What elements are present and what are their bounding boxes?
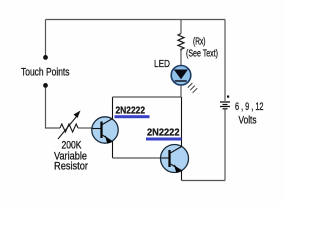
wire left column upper bbox=[45, 20, 47, 56]
transistor Q2 emitter bbox=[170, 164, 182, 181]
battery BT1 plates bbox=[220, 102, 230, 109]
label LED bbox=[154, 58, 170, 70]
label (See Text) bbox=[186, 49, 218, 60]
svg-text:2N2222: 2N2222 bbox=[116, 105, 146, 117]
label Variable bbox=[54, 151, 87, 163]
wire right column lower bbox=[224, 110, 226, 181]
LED D1 triangle bbox=[174, 70, 188, 80]
transistor Q1 body bbox=[92, 117, 118, 143]
wire R1 to Q1 base bbox=[78, 127, 92, 129]
LED D1 body bbox=[171, 66, 191, 86]
resistor R1 200K variable bbox=[60, 124, 78, 132]
svg-text:(Rx): (Rx) bbox=[193, 37, 206, 48]
svg-text:2N2222: 2N2222 bbox=[147, 127, 180, 139]
battery BT1 plus dot bbox=[227, 96, 229, 98]
transistor Q1 base lead bbox=[92, 128, 102, 130]
wire Rx branch top bbox=[180, 20, 182, 34]
label 6,9,12 bbox=[235, 101, 264, 113]
LED light rays bbox=[188, 83, 197, 93]
resistor R1 wiper arrow bbox=[58, 111, 81, 140]
label Resistor bbox=[54, 161, 88, 173]
transistor Q1 emitter bbox=[102, 135, 113, 159]
svg-text:Volts: Volts bbox=[239, 115, 257, 127]
node touch point lower bbox=[43, 83, 48, 88]
Q2 label underline bbox=[146, 138, 182, 141]
svg-text:6 , 9 , 12: 6 , 9 , 12 bbox=[235, 101, 264, 113]
label 2N2222 Q1 bbox=[116, 105, 146, 117]
transistor Q2 body bbox=[161, 145, 189, 173]
wire top rail bbox=[46, 19, 226, 21]
wire LED to collector bus bbox=[180, 85, 182, 97]
wire collector bus bbox=[113, 96, 182, 98]
transistor Q2 collector bbox=[170, 97, 182, 154]
Q1 label underline bbox=[115, 115, 150, 118]
wire left column lower to base rail bbox=[46, 88, 61, 129]
svg-text:Touch Points: Touch Points bbox=[21, 67, 70, 79]
transistor Q2 base bar bbox=[168, 150, 170, 167]
label 2N2222 Q2 bbox=[147, 127, 180, 139]
svg-text:(See Text): (See Text) bbox=[186, 49, 218, 60]
LED D1 cathode bar bbox=[175, 80, 187, 82]
node touch point upper bbox=[43, 55, 48, 60]
svg-text:Resistor: Resistor bbox=[54, 161, 88, 173]
label (Rx) bbox=[193, 37, 206, 48]
svg-text:LED: LED bbox=[154, 58, 170, 70]
label Touch Points bbox=[21, 67, 70, 79]
label 200K bbox=[62, 140, 83, 152]
wire emitter bus Q1 to Q2 base bbox=[113, 157, 161, 159]
wire Rx to LED bbox=[180, 51, 182, 66]
resistor Rx bbox=[178, 34, 184, 52]
wire right column upper bbox=[224, 20, 226, 102]
wire bottom rail bbox=[182, 180, 226, 182]
label Volts bbox=[239, 115, 257, 127]
transistor Q1 collector bbox=[102, 97, 113, 125]
transistor Q1 base bar bbox=[100, 122, 102, 139]
transistor Q2 base lead bbox=[161, 157, 170, 159]
